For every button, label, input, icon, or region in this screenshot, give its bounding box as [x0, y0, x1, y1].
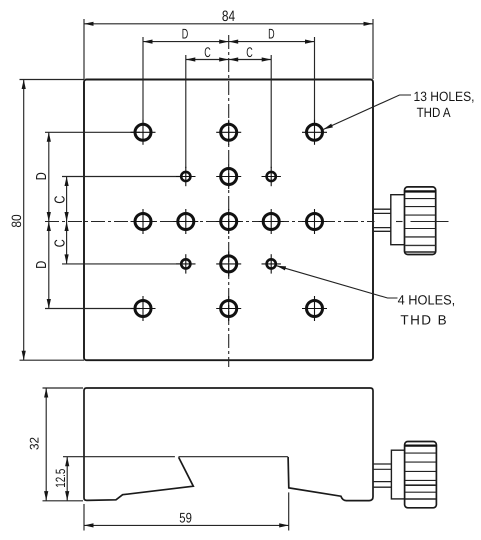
extension line col1 x=143 [142, 37, 144, 124]
extension line bottom edge left for 80 dim [20, 359, 85, 361]
extension line top edge left for 80 dim [20, 79, 85, 81]
extension line col4 x=271.2 [270, 55, 272, 168]
svg-text:59: 59 [179, 509, 192, 525]
dim line 12.5 [66, 457, 68, 501]
knob collar (top view) [391, 195, 405, 245]
extension line bottom edge for 32 dim [43, 500, 84, 502]
row1 extension line y=132.3 [45, 131, 140, 133]
svg-text:13 HOLES,: 13 HOLES, [414, 89, 475, 104]
svg-text:C: C [52, 196, 68, 204]
svg-text:4 HOLES,: 4 HOLES, [398, 293, 456, 308]
centerline vertical (middle column) [228, 35, 230, 367]
hole A6 r3c2 [173, 209, 198, 234]
front internal horizontal line + 12.5 extension [63, 456, 175, 458]
row5 extension line y=308.5 [45, 308, 140, 310]
svg-text:C: C [204, 44, 211, 60]
extension line col5 x=314.5 [314, 37, 316, 124]
front body outline right part [87, 388, 374, 501]
hole A9 r3c5 [302, 209, 327, 234]
knurl lines (top view knob) [405, 190, 435, 192]
svg-text:C: C [246, 44, 253, 60]
knob shaft lines (front view) [373, 463, 392, 465]
centerline horizontal (middle row) [45, 221, 375, 223]
leader line 13 HOLES [323, 95, 411, 129]
svg-text:D: D [268, 25, 275, 41]
knurl lines (front view knob) [405, 445, 436, 447]
knob body (top view) [405, 187, 436, 255]
hole A11 r5c1 [131, 296, 156, 321]
svg-text:D: D [34, 172, 50, 180]
row4 extension line y=263.9 [62, 263, 182, 265]
hole A8 r3c4 [259, 209, 284, 234]
leader line 4 HOLES [276, 266, 397, 298]
hole B3 r4c2 small [176, 254, 195, 273]
svg-text:D: D [34, 261, 50, 269]
plate outline [84, 80, 373, 361]
hole A1 r1c1 [131, 120, 156, 145]
dim line 59 [84, 524, 289, 526]
knob shaft lines (top view) [373, 208, 391, 210]
svg-text:C: C [52, 239, 68, 247]
extension line x=373 for 84 dim [372, 19, 374, 79]
hole B1 r2c2 small [176, 167, 195, 186]
svg-text:D: D [182, 25, 189, 41]
hole A2 r1c3 [216, 120, 241, 145]
front body left edge and wedge [84, 388, 193, 500]
knob body (front view) [405, 442, 437, 508]
hole B4 r4c4 small [262, 254, 281, 273]
dim line C left chain [66, 177, 68, 264]
hole A7 r3c3 center [216, 209, 241, 234]
hole A3 r1c5 [302, 120, 327, 145]
hole A13 r5c5 [302, 296, 327, 321]
dim line 32 [45, 388, 47, 501]
svg-text:32: 32 [28, 437, 42, 450]
row2 extension line y=176.5 [62, 176, 182, 178]
extension line x=84 for 84 dim [83, 19, 85, 79]
svg-text:12.5: 12.5 [53, 469, 68, 488]
hole A12 r5c3 [216, 296, 241, 321]
dim line 80 [23, 80, 25, 361]
svg-text:THD A: THD A [417, 105, 451, 120]
knob collar (front view) [391, 450, 404, 499]
hole A4 r2c3 [216, 164, 241, 189]
extension line top edge for 32 dim [43, 387, 84, 389]
svg-text:84: 84 [222, 8, 235, 25]
dim line D top [143, 41, 315, 43]
extension line x=288.7 for 59 dim [288, 492, 290, 530]
svg-text:THD B: THD B [400, 312, 446, 327]
dim line 84 [84, 23, 373, 25]
hole A10 r4c3 [216, 251, 241, 276]
extension line x=84 for 59 dim [83, 504, 85, 531]
dim line D left chain [48, 132, 50, 308]
hole A5 r3c1 [131, 209, 156, 234]
extension line col2 x=185.8 [185, 55, 187, 168]
svg-text:80: 80 [9, 214, 24, 227]
hole B2 r2c4 small [262, 167, 281, 186]
dim line C top [186, 59, 271, 61]
